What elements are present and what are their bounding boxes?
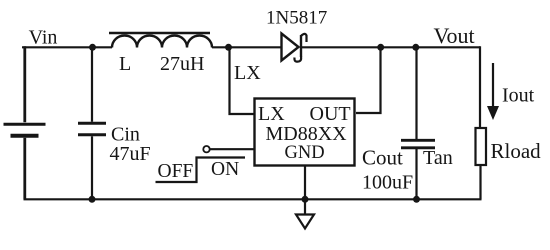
svg-text:Cout: Cout bbox=[362, 146, 403, 170]
svg-text:LX: LX bbox=[258, 103, 285, 125]
svg-text:Iout: Iout bbox=[502, 85, 535, 107]
svg-text:GND: GND bbox=[285, 143, 325, 163]
svg-text:1N5817: 1N5817 bbox=[266, 7, 327, 28]
svg-text:47uF: 47uF bbox=[110, 143, 151, 165]
svg-text:27uH: 27uH bbox=[160, 53, 204, 75]
svg-text:OUT: OUT bbox=[310, 103, 351, 125]
svg-text:OFF: OFF bbox=[158, 161, 194, 182]
svg-text:Vin: Vin bbox=[29, 27, 58, 49]
svg-text:ON: ON bbox=[211, 159, 239, 180]
svg-text:Tan: Tan bbox=[423, 147, 453, 169]
svg-text:MD88XX: MD88XX bbox=[266, 123, 348, 145]
svg-text:L: L bbox=[119, 53, 131, 75]
svg-text:100uF: 100uF bbox=[362, 172, 413, 194]
svg-text:LX: LX bbox=[234, 62, 261, 84]
svg-text:Rload: Rload bbox=[491, 139, 542, 163]
svg-text:Vout: Vout bbox=[434, 23, 475, 48]
